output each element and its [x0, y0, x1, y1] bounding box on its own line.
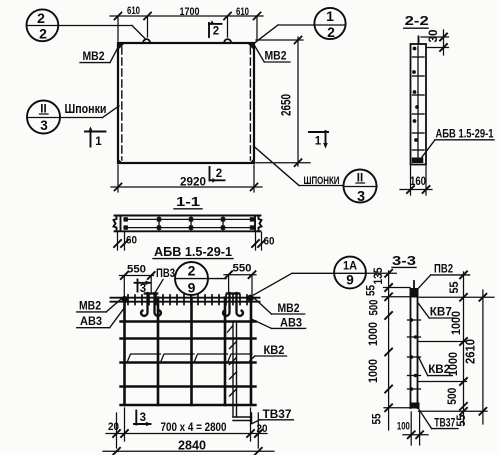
- svg-text:20: 20: [257, 423, 268, 435]
- chamfer top-left corner: [118, 43, 125, 50]
- section mark 1 left: [85, 126, 106, 148]
- label TV37 bottom: [252, 407, 293, 424]
- left end inner cap: [120, 216, 122, 231]
- svg-text:55: 55: [447, 281, 461, 293]
- label Shponki right with callout circle II/3: [254, 146, 378, 205]
- svg-text:АБВ 1.5-29-1: АБВ 1.5-29-1: [154, 244, 232, 259]
- bottom extension lines: [117, 408, 259, 448]
- vertical bar 5: [250, 298, 253, 405]
- svg-text:2920: 2920: [180, 175, 206, 189]
- label AV3 right: [252, 316, 306, 330]
- horizontal bar row 1: [121, 320, 256, 322]
- svg-text:55: 55: [364, 285, 378, 296]
- svg-text:ПВ2: ПВ2: [434, 262, 453, 276]
- dim line 700x4=2800: [106, 421, 268, 437]
- strip outline right: [417, 297, 419, 408]
- section bar outline top: [115, 215, 261, 217]
- svg-text:3: 3: [357, 189, 365, 205]
- label ABV 1.5-29-1: [422, 129, 494, 158]
- 60 dim left: [114, 233, 137, 251]
- svg-text:1-1: 1-1: [176, 195, 200, 209]
- svg-text:700 x 4 = 2800: 700 x 4 = 2800: [161, 422, 227, 434]
- right end inner cap: [254, 216, 256, 231]
- section mark 2 top: [209, 20, 222, 37]
- svg-text:1А: 1А: [343, 259, 357, 273]
- tick: [224, 13, 231, 20]
- dashed key line right: [249, 47, 251, 160]
- loop wire top: [413, 281, 415, 288]
- svg-text:60: 60: [264, 236, 275, 248]
- vertical bar 2: [157, 298, 160, 405]
- extension line x=147.5: [147, 17, 149, 37]
- chord end dot right: [247, 295, 254, 302]
- extension top from circle leader: [366, 272, 396, 274]
- extension line x=227.5: [227, 17, 229, 37]
- svg-text:3-3: 3-3: [392, 254, 416, 268]
- svg-text:ТВ37: ТВ37: [263, 407, 292, 421]
- rebar dots: [412, 47, 419, 142]
- extension at 296.5: [382, 296, 418, 298]
- inner mesh top line: [124, 218, 254, 220]
- svg-text:ТВ37: ТВ37: [434, 416, 455, 430]
- svg-text:2-2: 2-2: [405, 14, 429, 28]
- chamfer top-right corner: [247, 43, 254, 50]
- protruding bar top: [418, 37, 420, 45]
- svg-text:2: 2: [37, 10, 45, 26]
- callout circle 1A/9: [334, 257, 366, 289]
- svg-text:60: 60: [126, 235, 137, 247]
- extension line x=257: [256, 17, 258, 40]
- lifting loop left: [143, 39, 150, 43]
- svg-text:АВ3: АВ3: [280, 316, 302, 330]
- svg-text:1: 1: [315, 136, 322, 148]
- svg-text:9: 9: [188, 280, 196, 296]
- mesh divider 3: [222, 217, 224, 230]
- svg-text:АБВ 1.5-29-1: АБВ 1.5-29-1: [436, 129, 494, 141]
- svg-text:2: 2: [327, 24, 335, 40]
- svg-text:МВ2: МВ2: [265, 49, 287, 63]
- top anchor blob: [410, 288, 419, 298]
- extension at 341.5: [418, 341, 467, 343]
- extension line: [253, 165, 255, 192]
- label KV2: [419, 357, 453, 376]
- right dim chain 2 (2610): [464, 290, 487, 424]
- transverse dashes with dots: [408, 320, 421, 389]
- section mark 1 right: [309, 131, 328, 149]
- vertical bar 4: [224, 298, 227, 405]
- transverse ticks: [413, 57, 425, 150]
- inner mesh bottom line: [124, 227, 254, 229]
- dashed key line left: [121, 47, 123, 160]
- svg-text:610: 610: [127, 5, 140, 17]
- ticks: [460, 271, 467, 414]
- svg-text:3: 3: [140, 412, 146, 424]
- extension at 287: [384, 287, 411, 289]
- svg-text:2650: 2650: [278, 94, 294, 116]
- svg-text:1700: 1700: [180, 6, 200, 18]
- svg-text:3: 3: [140, 283, 146, 295]
- horizontal bar row 4: [121, 385, 256, 387]
- right dim chain 1: [418, 271, 494, 426]
- svg-text:610: 610: [236, 6, 249, 18]
- svg-text:135: 135: [371, 267, 385, 284]
- svg-text:ПВ3: ПВ3: [156, 268, 175, 280]
- svg-text:МВ2: МВ2: [83, 49, 105, 63]
- label MV2 left: [77, 297, 124, 313]
- vertical bar 3: [190, 298, 193, 405]
- svg-text:160: 160: [410, 174, 426, 188]
- svg-text:Шпонки: Шпонки: [65, 102, 107, 116]
- extension line: [117, 165, 119, 192]
- svg-text:2840: 2840: [178, 438, 206, 453]
- callout circle 1/2: [255, 8, 346, 43]
- svg-text:30: 30: [426, 29, 440, 42]
- svg-text:2: 2: [216, 168, 222, 180]
- svg-text:1: 1: [95, 136, 102, 148]
- callout circle 2/9: [175, 262, 226, 296]
- svg-text:КВ2: КВ2: [264, 343, 285, 357]
- bottom dimension line 2920: [111, 186, 262, 188]
- lifting hook left: [141, 293, 161, 316]
- horizontal bar row 2: [121, 337, 256, 339]
- section mark 2 bottom: [210, 167, 225, 183]
- 550 dim right: [224, 263, 256, 296]
- callout circle II/3 left with label: [27, 101, 119, 134]
- svg-text:МВ2: МВ2: [79, 299, 101, 313]
- svg-text:550: 550: [127, 264, 146, 276]
- svg-text:2: 2: [39, 26, 47, 42]
- tick: [254, 13, 261, 20]
- bottom anchor blob: [412, 158, 424, 164]
- svg-text:2: 2: [213, 26, 219, 38]
- label PV3: [154, 268, 175, 295]
- right end notched profile: [259, 216, 262, 232]
- section bar outline bottom: [115, 230, 261, 232]
- svg-text:100: 100: [397, 421, 410, 433]
- svg-text:2610: 2610: [464, 339, 478, 364]
- strip outline: [411, 44, 427, 165]
- 60 dim right: [252, 233, 275, 251]
- svg-text:500: 500: [445, 387, 459, 404]
- bottom anchor blob: [410, 403, 420, 409]
- 550 dim left: [120, 264, 155, 297]
- svg-text:1000: 1000: [366, 359, 380, 383]
- tick: [115, 13, 122, 20]
- svg-text:1: 1: [326, 8, 334, 24]
- center rebar line: [417, 46, 419, 161]
- extension at 297.3: [419, 296, 494, 298]
- top dimension line: [110, 15, 263, 17]
- svg-text:550: 550: [233, 263, 252, 275]
- tick: [251, 184, 258, 191]
- label MV2 right: [254, 298, 305, 316]
- chamfer bottom-right corner: [250, 159, 255, 164]
- extension line x=118: [117, 17, 119, 41]
- chord end dot left: [122, 296, 129, 303]
- leader to callout 1A/9: [254, 273, 335, 295]
- horizontal bar row 3: [121, 361, 256, 363]
- label KV7: [419, 304, 454, 319]
- chamfer bottom-left corner: [118, 159, 123, 164]
- svg-text:МВ2: МВ2: [278, 301, 300, 315]
- tick: [115, 184, 122, 191]
- left dim chain: [364, 267, 419, 430]
- top chord line 2: [111, 301, 260, 303]
- 30 dim: [421, 29, 449, 55]
- label AV3 left: [77, 307, 125, 328]
- section mark 3 top: [135, 280, 151, 296]
- left end notched profile: [114, 216, 117, 232]
- svg-text:1000: 1000: [446, 352, 460, 376]
- KV2 shelf bars with stepped ends: [127, 354, 252, 363]
- label MB2 left: [80, 47, 119, 64]
- svg-text:2: 2: [188, 263, 196, 279]
- extension at bottom 407.5: [384, 407, 411, 409]
- right dimension 2650: [256, 37, 310, 167]
- horizontal bar row 5 bottom: [121, 404, 256, 406]
- transverse wire ticks on chord: [128, 295, 247, 305]
- lifting loop right: [224, 39, 231, 43]
- dim line 2840: [103, 438, 274, 455]
- mesh node squares: [124, 217, 255, 230]
- 100 dim bottom: [397, 412, 428, 445]
- callout circle 2/2: [27, 9, 146, 41]
- label KV2: [250, 343, 287, 361]
- svg-text:55: 55: [370, 413, 384, 424]
- vertical bar 1: [123, 298, 126, 405]
- svg-text:1000: 1000: [366, 322, 380, 346]
- TV37 vertical element double line: [233, 322, 252, 424]
- tick: [144, 13, 151, 20]
- svg-text:3: 3: [40, 118, 48, 133]
- extension at 381.5: [418, 381, 467, 383]
- svg-text:55: 55: [454, 414, 468, 426]
- strip outline left: [410, 297, 412, 408]
- lifting hook right: [223, 293, 243, 316]
- svg-text:9: 9: [346, 273, 354, 288]
- panel outline: [118, 43, 254, 163]
- svg-text:20: 20: [108, 421, 119, 433]
- top chord line 1: [111, 297, 260, 299]
- mesh divider 1: [158, 217, 160, 230]
- label TV37: [418, 409, 458, 430]
- extension at 411.3: [418, 410, 487, 412]
- label PV2: [416, 262, 470, 292]
- svg-text:АВ3: АВ3: [80, 314, 102, 328]
- svg-text:500: 500: [366, 299, 380, 315]
- mesh divider 2: [190, 217, 192, 230]
- TV37 step marks: [228, 326, 237, 397]
- label MB2 right: [255, 46, 291, 63]
- svg-text:1000: 1000: [449, 311, 463, 335]
- ticks: [385, 270, 392, 412]
- 160 dim: [400, 166, 432, 195]
- section mark 3 bottom: [134, 411, 151, 427]
